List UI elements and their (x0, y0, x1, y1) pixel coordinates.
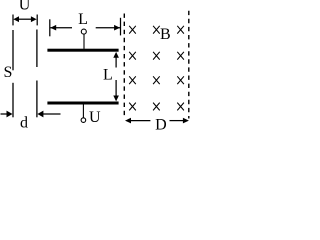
svg-text:D: D (155, 116, 167, 130)
terminal of bottom deflecting plate (81, 118, 86, 123)
right boundary of magnetic field region (dashed) (188, 11, 190, 119)
svg-text:U: U (89, 109, 101, 126)
svg-text:d: d (20, 115, 28, 130)
svg-text:B: B (160, 26, 171, 43)
dimension arrow for plate gap L (vertical) (113, 52, 119, 102)
left plate of accelerating capacitor (with slit) (12, 30, 14, 117)
wire from bottom plate (82, 104, 84, 118)
top deflecting plate (47, 49, 118, 52)
wire to top plate (83, 34, 85, 49)
svg-text:U: U (19, 0, 31, 14)
dimension arrow for plate length L (middle top) (50, 18, 121, 37)
right plate of accelerating capacitor (with slit) (36, 30, 38, 118)
terminal of top deflecting plate (81, 29, 86, 34)
svg-text:L: L (78, 11, 88, 28)
dimension arrow for field region width D (125, 118, 189, 124)
svg-text:S: S (4, 64, 13, 81)
dimension arrows for plate separation d (1, 111, 61, 118)
bottom deflecting plate (47, 102, 118, 105)
svg-text:L: L (103, 67, 113, 84)
dimension arrow for U gap (left figure top) (13, 15, 37, 26)
left boundary of magnetic field region (dashed) (123, 14, 125, 119)
magnetic field crosses (B into page) (129, 26, 184, 111)
